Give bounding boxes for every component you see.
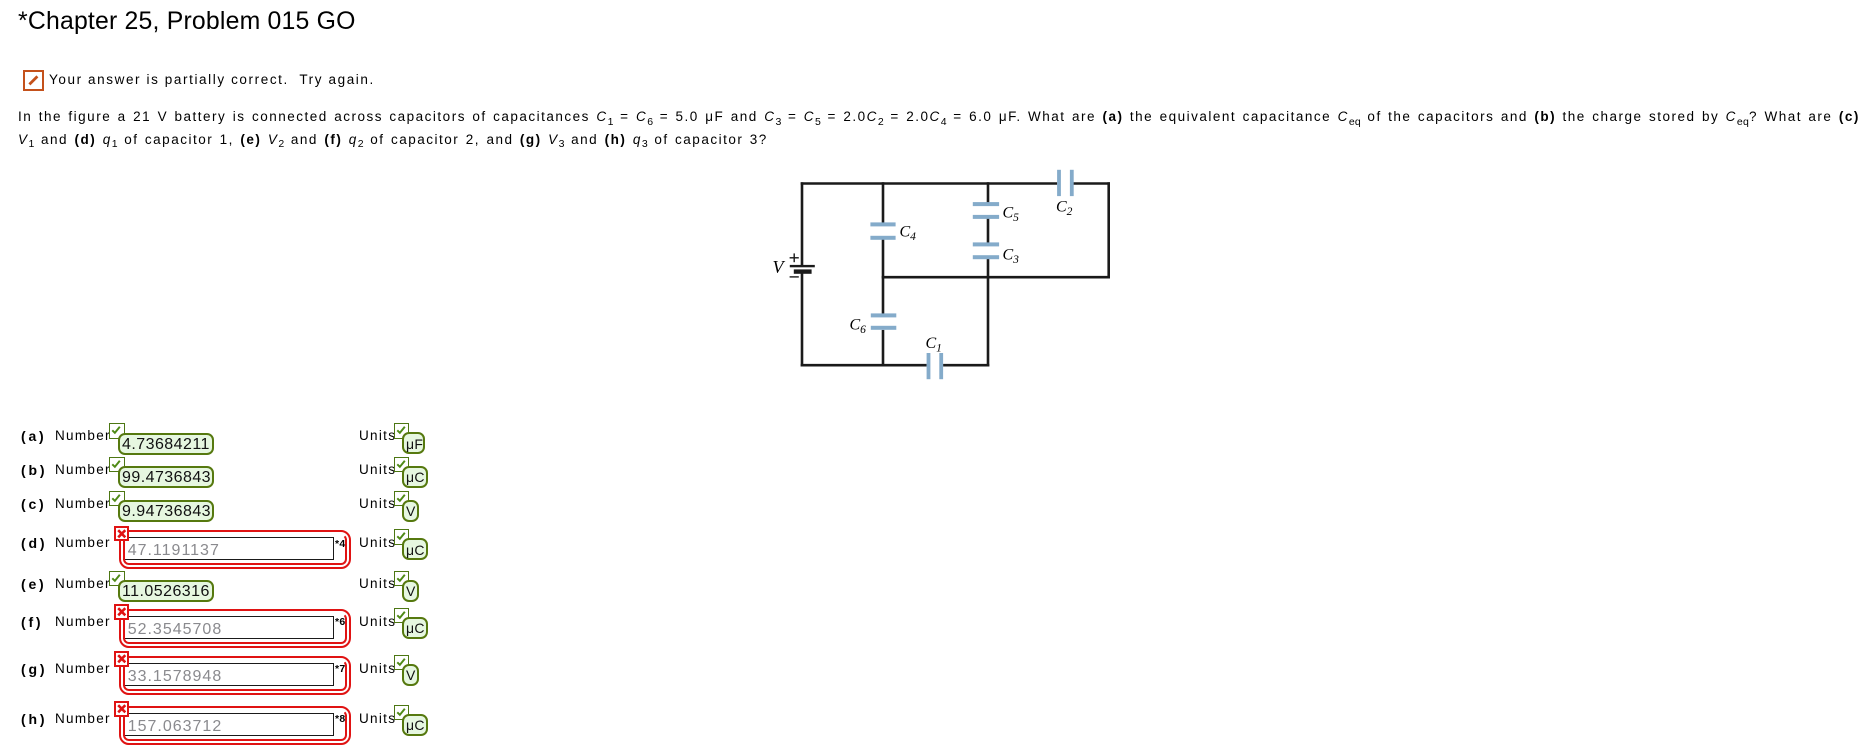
row c [21,496,47,512]
wire branch A between C4 and C6 [882,239,885,315]
row h [21,711,47,727]
wire branch A above C4 [882,182,885,223]
svg-text:C1: C1 [926,335,942,355]
svg-text:C4: C4 [900,224,917,244]
capacitor C4 [870,222,895,239]
capacitor C2 [1057,170,1074,196]
wire bottom rail right of C1 [943,364,989,367]
capacitor C1 [927,353,944,379]
capacitor C5 [973,202,999,219]
row d [21,535,47,551]
svg-text:C2: C2 [1056,199,1073,219]
wire top rail left of C2 [801,182,1057,185]
wire branch B above C5 [987,182,990,203]
row a [21,428,47,444]
row f [21,614,43,630]
wire branch B between C5 and C3 [987,218,990,244]
wire bottom rail left of C1 [801,364,927,367]
wire middle rail [882,276,1110,279]
wire left branch bottom (battery negative lead) [801,274,804,367]
row b [21,462,47,478]
wire branch A below C6 [882,330,885,367]
battery plus sign [790,253,799,262]
row e [21,576,47,592]
svg-text:V: V [773,257,786,277]
wire right branch [1107,182,1110,278]
svg-text:C5: C5 [1003,205,1020,225]
capacitor C6 [871,313,897,329]
svg-text:C6: C6 [850,317,867,337]
wire top rail right of C2 [1074,182,1111,185]
battery V [790,265,815,274]
wire branch B below C3 [987,259,990,367]
svg-text:C3: C3 [1003,247,1020,267]
battery minus sign [790,276,799,278]
capacitor C3 [973,242,999,259]
wire left branch top (battery positive lead) [801,182,804,266]
row g [21,661,47,677]
